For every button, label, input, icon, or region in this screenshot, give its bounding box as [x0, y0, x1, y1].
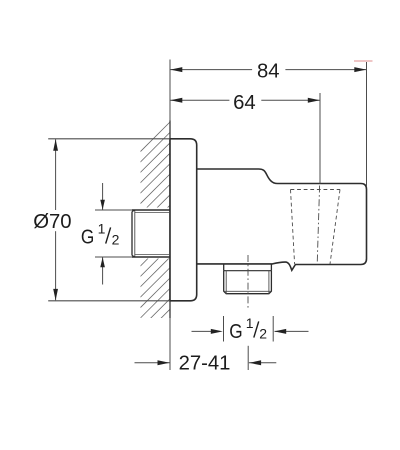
- svg-text:Ø70: Ø70: [33, 211, 71, 233]
- svg-text:64: 64: [233, 92, 256, 114]
- svg-text:27-41: 27-41: [179, 352, 231, 374]
- svg-text:G: G: [229, 321, 242, 343]
- svg-text:2: 2: [259, 325, 267, 341]
- svg-text:84: 84: [257, 61, 280, 83]
- svg-text:1: 1: [246, 315, 254, 331]
- svg-text:2: 2: [112, 232, 120, 248]
- svg-text:G: G: [81, 227, 94, 249]
- svg-text:1: 1: [98, 221, 106, 237]
